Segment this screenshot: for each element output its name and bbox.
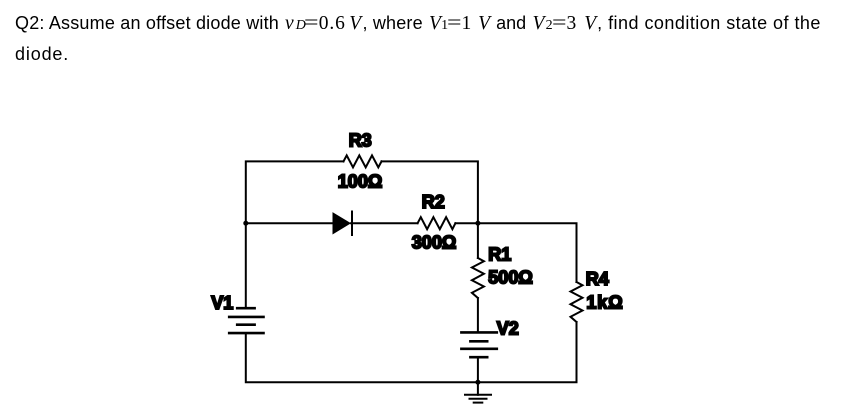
wire R4 to bottom-right corner <box>478 322 577 382</box>
svg-text:R1: R1 <box>488 245 511 265</box>
wire R1 to V2 <box>477 298 479 332</box>
node dot left <box>243 221 248 226</box>
wire mid-left node to diode <box>246 222 333 224</box>
svg-text:R3: R3 <box>349 130 372 150</box>
resistor R3 <box>344 155 382 167</box>
problem statement line 2 <box>15 45 69 63</box>
diode D1 <box>333 212 418 236</box>
wire left down to V1 <box>245 223 247 308</box>
svg-text:100Ω: 100Ω <box>338 172 382 192</box>
node dot bottom <box>475 380 480 385</box>
wire right node down to R1 <box>477 223 479 258</box>
svg-text:300Ω: 300Ω <box>412 232 456 252</box>
resistor R4 <box>571 282 583 322</box>
svg-text:V2: V2 <box>497 318 519 338</box>
svg-text:1kΩ: 1kΩ <box>586 293 623 313</box>
battery V2 <box>461 332 496 357</box>
svg-text:R2: R2 <box>422 192 445 212</box>
wire top-left to R3 <box>246 161 344 223</box>
wire R2 to right node <box>455 222 478 224</box>
problem statement line 1 <box>15 14 821 35</box>
svg-text:V1: V1 <box>211 293 233 313</box>
battery V1 <box>229 308 263 333</box>
wire V1 to bottom-left corner <box>246 333 478 382</box>
resistor R2 <box>418 217 456 229</box>
svg-text:500Ω: 500Ω <box>488 268 532 288</box>
wire R3 to top-right corner <box>382 161 478 223</box>
resistor R1 <box>472 258 484 298</box>
wire V2 to bottom node <box>477 357 479 382</box>
svg-text:R4: R4 <box>586 269 609 289</box>
ground <box>465 382 491 402</box>
node dot right <box>475 221 480 226</box>
wire right node to R4 branch <box>478 223 577 282</box>
